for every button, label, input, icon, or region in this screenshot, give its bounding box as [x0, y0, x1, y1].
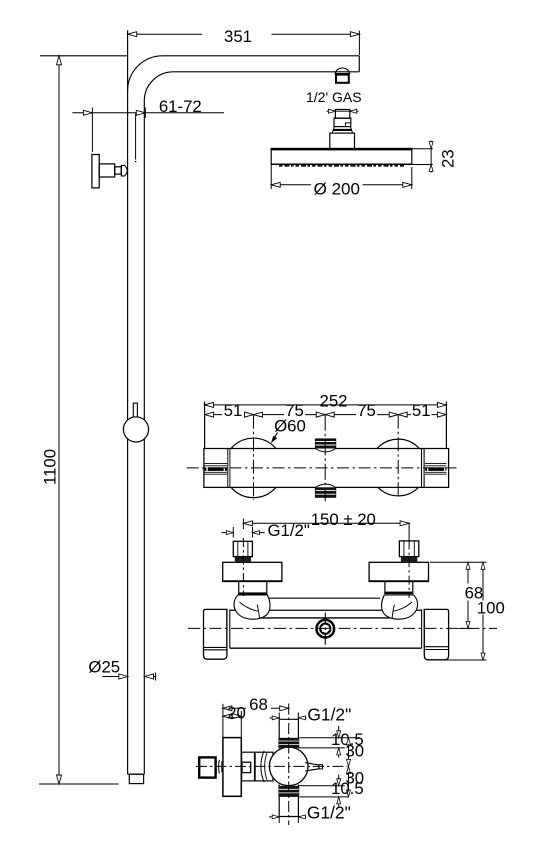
dimension 30 bottom	[345, 766, 364, 797]
wall bracket plate	[92, 155, 99, 188]
side wall plate	[223, 738, 241, 797]
right circle centerline	[397, 415, 399, 498]
head connector thread piece	[335, 110, 349, 119]
dimension 68 front	[430, 562, 487, 628]
dimension 252	[205, 391, 447, 448]
shower arm bend outer curve	[128, 56, 163, 91]
top inlet pipe	[278, 719, 299, 748]
side vertical centerline	[288, 704, 290, 826]
diverter screw	[317, 620, 335, 638]
dimension 30 top	[345, 738, 364, 767]
riser pipe left edge	[127, 30, 129, 774]
shower arm bend inner curve	[144, 72, 173, 101]
svg-text:G1/2": G1/2"	[307, 705, 351, 725]
spray nozzle row	[279, 165, 404, 167]
head mount block	[330, 133, 355, 149]
thread dimension lines	[327, 109, 359, 113]
dimension 10.5 bottom	[331, 775, 364, 809]
top knurled knob	[315, 438, 336, 448]
left body cap front	[204, 609, 230, 659]
left inlet centerline	[242, 538, 244, 596]
dimension G1/2 bottom	[269, 802, 351, 823]
right escutcheon	[369, 562, 428, 581]
dimension 351	[128, 27, 360, 55]
left union stem	[238, 581, 267, 595]
ground baseline	[39, 783, 119, 785]
svg-text:252: 252	[320, 391, 348, 410]
mixer body bar front	[230, 610, 422, 648]
side horizontal centerline	[196, 765, 348, 767]
valve stem housing	[242, 752, 273, 781]
right inlet centerline	[408, 541, 410, 598]
left union elbow foot	[234, 595, 270, 619]
shower arm bottom line	[173, 71, 359, 73]
shower arm top line	[163, 55, 360, 57]
left inlet thread knurl	[235, 557, 251, 562]
joint crescent	[261, 751, 267, 782]
dimension 1100	[40, 56, 61, 784]
wall bracket arm	[99, 164, 115, 177]
top view left aerator slot	[204, 463, 227, 474]
svg-text:G1/2": G1/2"	[307, 802, 351, 822]
diverter centerline	[324, 613, 326, 645]
svg-text:75: 75	[357, 401, 376, 420]
dimension 100 front	[427, 562, 505, 660]
dimension 23	[412, 141, 457, 173]
dimension diameter 25	[88, 657, 155, 680]
top view horizontal centerline	[187, 467, 460, 469]
label 1/2' GAS	[306, 89, 362, 105]
dimension G1/2 front	[222, 521, 310, 540]
dimension 150 plus-minus 20	[243, 510, 409, 541]
dimension 20 side	[223, 703, 246, 737]
svg-text:100: 100	[477, 599, 505, 618]
side body circle	[269, 747, 308, 786]
svg-text:1100: 1100	[40, 449, 59, 485]
spout nose	[305, 763, 322, 771]
pipe end cap	[128, 774, 145, 783]
side view handle knob	[199, 757, 215, 777]
svg-text:51: 51	[224, 401, 243, 420]
arm nozzle block	[336, 75, 349, 83]
shower arm end edge	[358, 56, 360, 72]
wall bracket collar	[115, 167, 122, 174]
shower head disc body	[271, 148, 413, 165]
dimension diameter 200	[271, 165, 412, 199]
right inlet nut	[399, 541, 418, 557]
top knurled knob bulge	[316, 449, 336, 452]
left circle centerline	[253, 415, 255, 500]
top view left cap joint lines	[228, 449, 230, 488]
dimension G1/2 top	[270, 705, 352, 725]
svg-text:Ø25: Ø25	[88, 657, 120, 676]
label diameter 60 with leader	[271, 416, 306, 443]
cartridge square	[242, 762, 251, 772]
head connector body	[334, 118, 351, 126]
top view right aerator slot	[425, 463, 447, 474]
head connector flare and cone	[332, 127, 352, 134]
svg-text:Ø60: Ø60	[274, 416, 306, 435]
top view right handle circle	[370, 439, 427, 496]
bottom knurled knob	[315, 487, 336, 497]
arm nozzle dome	[335, 68, 351, 74]
riser pipe right edge	[143, 101, 145, 774]
bottom knurled knob bulge	[316, 484, 336, 487]
svg-text:61-72: 61-72	[159, 97, 202, 116]
top view right cap joint lines	[422, 449, 425, 488]
middle knob centerline	[324, 415, 326, 501]
top view body bar	[204, 449, 449, 488]
body front edge line	[260, 617, 390, 619]
svg-text:351: 351	[224, 27, 252, 46]
dimension 10.5 top	[331, 726, 364, 758]
right union stem	[384, 581, 413, 594]
svg-text:1/2' GAS: 1/2' GAS	[306, 89, 362, 105]
svg-text:Ø 200: Ø 200	[314, 180, 360, 199]
thread reference lines right	[298, 738, 360, 797]
right union elbow foot	[382, 595, 418, 619]
right body cap front	[422, 609, 449, 659]
right inlet thread knurl	[401, 557, 417, 562]
slider tab	[133, 403, 137, 417]
slider ring	[123, 417, 148, 442]
svg-text:51: 51	[412, 401, 431, 420]
left inlet nut	[233, 541, 252, 556]
left escutcheon	[223, 562, 282, 581]
dimension 61-72	[72, 97, 224, 162]
wall reference line	[40, 55, 127, 57]
front horizontal centerline	[188, 627, 497, 629]
shower head disc top surface	[271, 148, 413, 151]
dimension chain 51 75 75 51	[205, 401, 447, 420]
handle bellows	[216, 760, 222, 774]
svg-text:20: 20	[227, 703, 246, 722]
bottom outlet pipe	[278, 785, 299, 817]
top view left handle circle	[224, 438, 283, 497]
svg-text:150 ± 20: 150 ± 20	[311, 510, 376, 529]
dimension 68 side	[223, 695, 289, 738]
svg-text:68: 68	[249, 695, 268, 714]
body ledge between unions	[269, 597, 380, 599]
wall bracket pipe clamp	[121, 165, 127, 176]
svg-text:23: 23	[438, 149, 457, 168]
svg-text:G1/2": G1/2"	[268, 521, 310, 540]
svg-text:30: 30	[345, 742, 364, 761]
svg-text:10.5: 10.5	[331, 779, 364, 798]
